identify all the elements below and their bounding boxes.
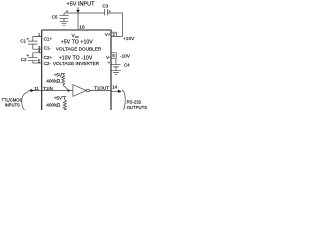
svg-text:6: 6 bbox=[112, 53, 115, 58]
node input arrowhead T1IN bbox=[30, 89, 34, 92]
node input arrow head bbox=[76, 10, 79, 13]
IC box outline bbox=[42, 30, 111, 110]
svg-text:C5: C5 bbox=[52, 15, 58, 20]
svg-text:V+: V+ bbox=[105, 32, 111, 37]
op-amp driver T1 buffer bbox=[73, 85, 86, 97]
svg-text:C3: C3 bbox=[102, 3, 108, 8]
capacitor C1 bbox=[20, 38, 37, 45]
wire buffer to pin14 bbox=[89, 90, 111, 92]
node junction dot T1IN bbox=[67, 89, 69, 91]
wire T1IN to buffer bbox=[42, 90, 73, 92]
capacitor C2 bbox=[21, 54, 38, 62]
wire C3 to V+ node bbox=[107, 13, 122, 36]
svg-text:C1+: C1+ bbox=[44, 36, 53, 41]
pin 2 tab bbox=[111, 32, 116, 36]
svg-text:VOLTAGE INVERTER: VOLTAGE INVERTER bbox=[53, 61, 100, 66]
svg-text:+5V: +5V bbox=[54, 96, 63, 101]
svg-text:+5V TO +10V: +5V TO +10V bbox=[61, 40, 94, 46]
wire C2 to pin5 bbox=[33, 61, 42, 63]
svg-text:RS-232: RS-232 bbox=[127, 99, 142, 104]
svg-text:C2+: C2+ bbox=[44, 55, 53, 60]
svg-text:INPUTS: INPUTS bbox=[5, 102, 20, 107]
svg-text:-10V: -10V bbox=[120, 54, 131, 60]
wire C2 to pin4 bbox=[33, 53, 42, 58]
capacitor C3 bbox=[102, 3, 110, 15]
node output arrowhead T1OUT bbox=[118, 90, 122, 93]
svg-text:400kΩ: 400kΩ bbox=[46, 102, 60, 108]
svg-text:C2: C2 bbox=[21, 57, 27, 62]
capacitor C4 bbox=[108, 61, 130, 70]
svg-text:400kΩ: 400kΩ bbox=[46, 79, 60, 85]
svg-text:VCC: VCC bbox=[72, 33, 79, 39]
svg-text:+10V: +10V bbox=[123, 36, 135, 42]
svg-text:C1-: C1- bbox=[44, 45, 52, 50]
wire C1 to pin1 bbox=[33, 37, 42, 42]
wire +5V rail bbox=[64, 12, 105, 14]
capacitor C5 bbox=[52, 10, 69, 22]
wire arrow shaft bbox=[77, 7, 79, 10]
svg-text:16: 16 bbox=[79, 24, 85, 30]
wire Vcc drop to pin16 bbox=[77, 13, 79, 30]
svg-text:14: 14 bbox=[112, 84, 117, 89]
ground below C5 bbox=[60, 22, 69, 26]
svg-text:C4: C4 bbox=[124, 62, 130, 67]
svg-text:OUTPUTS: OUTPUTS bbox=[127, 105, 148, 110]
wire T1OUT output bbox=[111, 90, 118, 92]
brace RS-232 outputs bbox=[122, 90, 125, 110]
ground below C4 bbox=[111, 71, 120, 75]
svg-text:C1: C1 bbox=[20, 38, 26, 43]
resistor R2 400k pullup bbox=[46, 97, 66, 111]
wire pin2 to +10V bbox=[111, 35, 123, 37]
wire T1IN input bbox=[28, 90, 42, 92]
node inverter bubble bbox=[87, 89, 90, 92]
pin 6 tab bbox=[111, 53, 116, 58]
svg-text:V-: V- bbox=[106, 55, 111, 60]
svg-text:T1OUT: T1OUT bbox=[94, 85, 109, 90]
wire pin6 to C4 bbox=[111, 58, 116, 64]
svg-text:T1IN: T1IN bbox=[43, 86, 53, 91]
resistor R1 400k pullup bbox=[46, 73, 68, 90]
svg-text:11: 11 bbox=[34, 86, 39, 91]
svg-text:+5V INPUT: +5V INPUT bbox=[67, 2, 96, 8]
wire C1 to pin3 bbox=[33, 44, 42, 49]
brace TTL/CMOS inputs bbox=[22, 92, 29, 110]
svg-text:VOLTAGE DOUBLER: VOLTAGE DOUBLER bbox=[56, 46, 102, 51]
svg-text:C2-: C2- bbox=[44, 61, 52, 66]
